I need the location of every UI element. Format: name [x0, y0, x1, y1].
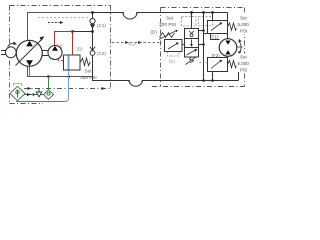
- svg-text:Set: Set: [240, 16, 248, 21]
- svg-text:PSI: PSI: [240, 29, 247, 34]
- svg-text:(E): (E): [169, 59, 175, 64]
- svg-text:5,000: 5,000: [238, 61, 250, 66]
- svg-text:300 PSI: 300 PSI: [80, 75, 97, 80]
- svg-text:200 PSI: 200 PSI: [159, 22, 176, 28]
- svg-text:(C2): (C2): [97, 51, 106, 56]
- svg-text:Set: Set: [85, 69, 93, 74]
- svg-text:(D): (D): [151, 30, 158, 35]
- svg-text:(B): (B): [77, 47, 84, 52]
- svg-text:(F1): (F1): [210, 35, 219, 40]
- svg-text:Set: Set: [240, 55, 248, 60]
- svg-text:(C1): (C1): [97, 23, 106, 28]
- svg-text:Set: Set: [166, 16, 174, 21]
- svg-text:5,000: 5,000: [238, 22, 250, 27]
- svg-text:PSI: PSI: [240, 68, 247, 73]
